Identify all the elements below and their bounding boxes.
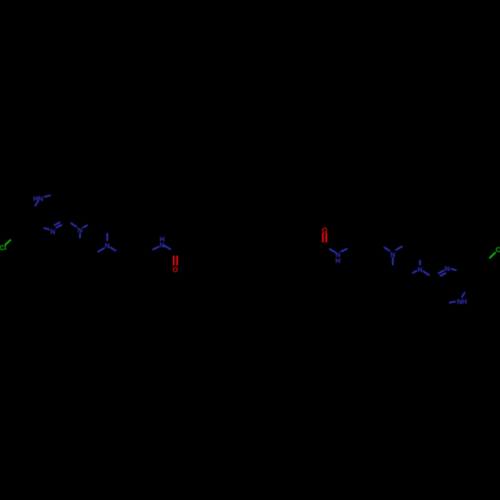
svg-text:C: C <box>496 247 500 254</box>
svg-text:N: N <box>335 252 340 259</box>
svg-text:N: N <box>445 266 450 273</box>
svg-text:N: N <box>390 252 395 259</box>
svg-text:N: N <box>417 267 422 274</box>
svg-text:N: N <box>77 228 82 235</box>
svg-text:N: N <box>105 243 110 250</box>
svg-text:N: N <box>50 229 55 236</box>
svg-text:H: H <box>462 299 467 306</box>
svg-text:O: O <box>173 267 179 274</box>
svg-text:O: O <box>322 228 328 235</box>
svg-text:N: N <box>160 243 165 250</box>
svg-text:l: l <box>4 244 6 252</box>
svg-text:N: N <box>38 196 43 203</box>
